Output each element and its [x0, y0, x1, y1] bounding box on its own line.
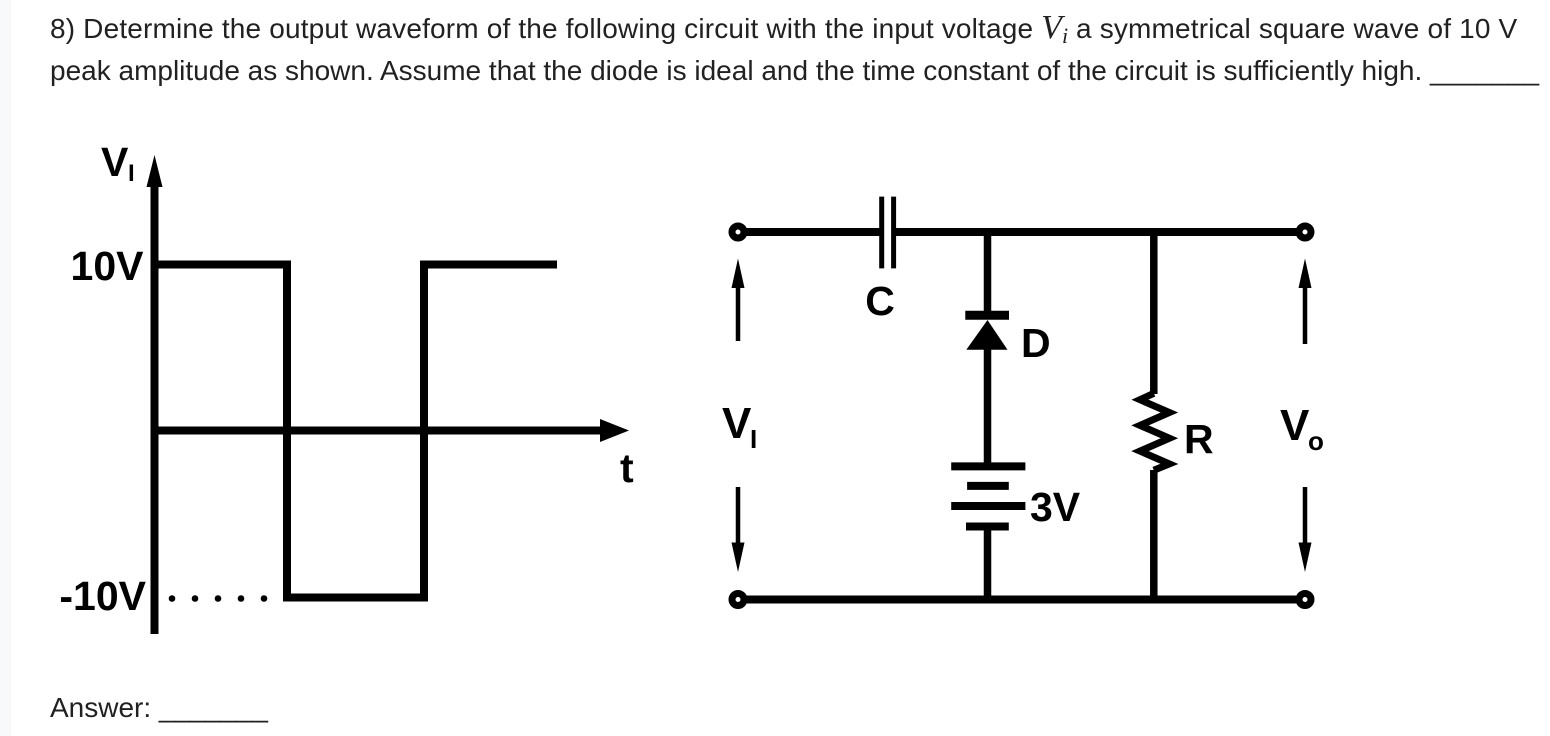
wire: top rail right segment (capacitor to output terminal) [895, 228, 1299, 236]
answer line [50, 694, 268, 722]
output polarity arrow up (right) [1299, 259, 1312, 345]
svg-text:-10V: -10V [59, 573, 146, 619]
wire: battery to bottom rail segment [984, 527, 992, 600]
input polarity arrow up (left) [732, 259, 745, 342]
input waveform graph: square wave trace [155, 265, 558, 598]
wire: diode to battery segment [984, 348, 992, 466]
battery value label 3V [1030, 484, 1081, 530]
diode D (cathode bar and triangle pointing up) [965, 315, 1009, 349]
svg-text:10V: 10V [71, 243, 145, 289]
input waveform graph: Vi axis label [101, 139, 135, 187]
question text line 2 [50, 57, 1539, 85]
input waveform graph: -10V level label [59, 573, 146, 619]
terminal: bottom-left input terminal [732, 594, 744, 606]
input waveform graph: horizontal time axis [155, 419, 630, 442]
svg-text:V: V [101, 139, 129, 185]
svg-text:V: V [722, 399, 752, 448]
resistor R (zigzag) [1140, 393, 1169, 470]
capacitor label C [865, 278, 895, 324]
terminal: top-left input terminal [732, 226, 744, 238]
input waveform graph: 10V level label [71, 243, 145, 289]
svg-text:C: C [865, 278, 895, 324]
output polarity arrow down (right) [1299, 487, 1312, 572]
wire: bottom rail [745, 596, 1298, 604]
wire: resistor branch upper segment [1150, 232, 1158, 394]
input polarity arrow down (left) [732, 487, 745, 572]
svg-text:t: t [620, 445, 634, 491]
diode label D [1021, 320, 1051, 366]
wire: resistor to bottom rail segment [1150, 470, 1158, 600]
svg-text:D: D [1021, 320, 1051, 366]
input waveform graph: t axis label [620, 445, 634, 491]
terminal: bottom-right output terminal [1299, 594, 1311, 606]
svg-text:I: I [128, 160, 135, 187]
svg-text:R: R [1184, 416, 1214, 462]
battery 3V (four plates) [951, 466, 1025, 526]
terminal: top-right output terminal [1299, 226, 1311, 238]
svg-text:I: I [750, 424, 757, 454]
svg-text:o: o [1308, 426, 1324, 456]
left page margin strip [0, 0, 11, 736]
svg-text:3V: 3V [1030, 484, 1081, 530]
wire: diode branch upper segment [984, 232, 992, 315]
question text line 1 [50, 14, 1517, 45]
input label Vi (left) [722, 399, 757, 454]
wire: top rail left segment (terminal to capacitor) [745, 228, 881, 236]
output label Vo (right) [1280, 401, 1324, 456]
resistor label R [1184, 416, 1214, 462]
svg-text:V: V [1280, 401, 1310, 450]
input waveform graph: dotted -10V reference dots [169, 595, 268, 602]
input waveform graph: vertical voltage axis [147, 155, 163, 634]
capacitor C [882, 197, 894, 269]
